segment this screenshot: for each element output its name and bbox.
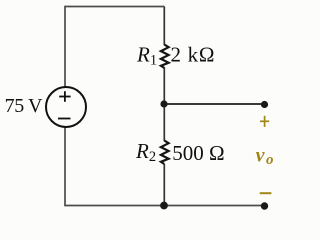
- svg-text:500 Ω: 500 Ω: [172, 141, 224, 165]
- resistor R2 zigzag: [161, 141, 169, 165]
- svg-text:2 kΩ: 2 kΩ: [171, 43, 216, 67]
- wire between R1 and R2: [163, 68, 165, 142]
- svg-text:75 V: 75 V: [5, 95, 43, 117]
- wire top from R1 column to source, down to source top: [65, 7, 164, 88]
- node dot right terminal top: [261, 101, 268, 108]
- node dot middle at R column: [160, 100, 167, 107]
- resistor R1 zigzag: [161, 45, 169, 69]
- minus sign inside source: [58, 118, 71, 120]
- wire middle node to right terminal: [164, 103, 265, 105]
- voltage source Vs 75 V: [46, 87, 86, 127]
- node dot bottom at R column: [160, 202, 168, 210]
- output polarity plus: [260, 116, 269, 127]
- plus sign inside source: [59, 91, 70, 102]
- node dot right terminal bottom: [261, 202, 268, 209]
- wire right column top segment: [163, 7, 165, 46]
- wire from source bottom, corner, bottom wire to right terminal: [65, 128, 265, 206]
- wire below R2 to bottom node: [163, 164, 165, 206]
- output polarity minus: [260, 192, 272, 194]
